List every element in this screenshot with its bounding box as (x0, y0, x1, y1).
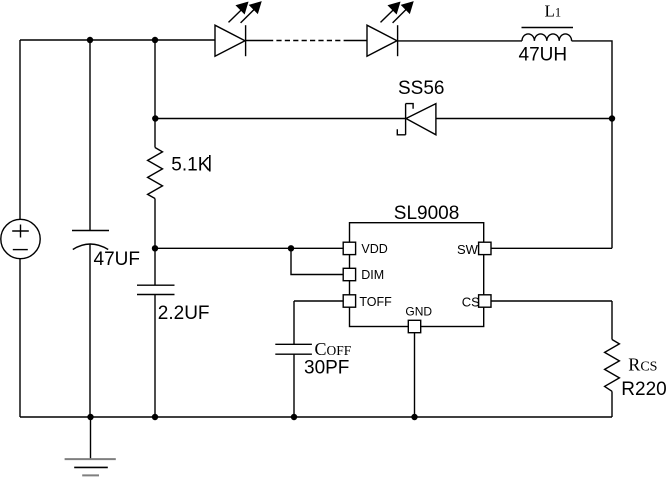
node junction diode row right (609, 115, 615, 121)
wire dashed LED string continuation (268, 40, 345, 42)
node junction bottom rail ground (87, 414, 93, 420)
wire CS row (491, 300, 612, 302)
pin VDD (343, 242, 355, 254)
pin TOFF (343, 295, 355, 307)
wire CS vertical to resistor (611, 301, 613, 340)
pin SW (479, 242, 491, 254)
svg-text:SW: SW (457, 242, 479, 257)
text cursor after 5.1K (209, 155, 211, 172)
svg-text:VDD: VDD (361, 242, 387, 256)
wire 5.1K branch from top rail to resistor (154, 40, 156, 148)
node junction top rail 5.1K (152, 37, 158, 43)
node junction diode row left (152, 115, 158, 121)
voltage source (1, 219, 40, 258)
node junction top rail 47UF (87, 37, 93, 43)
wire SW row (491, 247, 612, 249)
wire diode row from 5.1K branch (155, 118, 406, 120)
diode D3 SS56 schottky (397, 104, 436, 135)
wire left vertical source bottom (19, 259, 21, 417)
resistor R1 5.1K (148, 148, 163, 199)
node junction bottom rail 2.2UF (152, 414, 158, 420)
wire resistor to 2.2UF (154, 199, 156, 286)
wire 2.2UF to bottom rail (154, 295, 156, 418)
svg-text:47UH: 47UH (519, 44, 568, 65)
pin CS (479, 295, 491, 307)
op-amp U1 SL9008 body (350, 223, 484, 327)
wire 47UF branch bottom (89, 244, 91, 418)
wire top rail from source to LED1 anode (20, 39, 215, 41)
wire TOFF row (294, 300, 343, 302)
wire COFF to bottom rail (293, 354, 295, 417)
svg-text:47UF: 47UF (94, 249, 140, 270)
svg-text:SL9008: SL9008 (394, 203, 460, 224)
pin GND (408, 320, 420, 332)
capacitor C2 2.2UF (137, 285, 175, 294)
svg-text:R220: R220 (621, 379, 666, 400)
node junction VDD row (152, 245, 158, 251)
wire 47UF branch top (89, 40, 91, 230)
wire inductor to right rail (572, 41, 612, 248)
svg-text:30PF: 30PF (304, 358, 349, 379)
svg-text:GND: GND (405, 305, 432, 319)
svg-text:COFF: COFF (315, 339, 352, 359)
svg-text:SS56: SS56 (398, 78, 444, 99)
wire LED2 cathode to inductor (398, 40, 522, 42)
pin DIM (343, 268, 355, 280)
resistor R2 RCS (605, 340, 620, 392)
wire VDD row (155, 247, 343, 249)
wire resistor to bottom rail (611, 391, 613, 417)
wire LED1 cathode to dashed (246, 40, 268, 42)
svg-text:TOFF: TOFF (359, 295, 392, 309)
wire DIM branch (291, 248, 343, 274)
node junction bottom rail COFF (291, 414, 297, 420)
node junction DIM branch (288, 245, 294, 251)
svg-text:CS: CS (462, 294, 480, 309)
ground (65, 417, 116, 475)
capacitor C3 COFF (275, 344, 312, 354)
LED D2 (367, 2, 413, 56)
wire COFF branch vertical (293, 301, 295, 344)
LED D1 (215, 2, 261, 56)
wire bottom rail (20, 416, 612, 418)
svg-text:RCS: RCS (628, 354, 657, 374)
inductor L1 (522, 28, 574, 41)
svg-text:DIM: DIM (361, 268, 384, 282)
svg-text:5.1K: 5.1K (171, 155, 210, 176)
wire diode cathode side to right rail (436, 118, 612, 120)
svg-text:2.2UF: 2.2UF (158, 303, 210, 324)
capacitor C1 47UF (72, 231, 109, 250)
wire left vertical source top (19, 40, 21, 220)
wire dashed to LED2 anode (345, 40, 367, 42)
wire GND pin to bottom rail (414, 333, 416, 417)
svg-text:L1: L1 (545, 2, 562, 21)
node junction bottom rail GND (411, 414, 417, 420)
